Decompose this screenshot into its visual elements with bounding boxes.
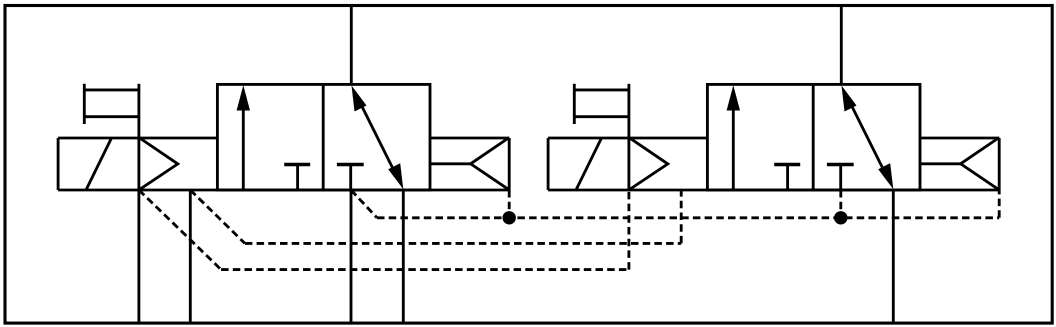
valve V1 body outline xyxy=(217,84,430,190)
valve V2 pilot triangle xyxy=(629,138,668,190)
wire: valve V1 bottom line port 3 xyxy=(402,190,405,323)
valve V2 body outline xyxy=(707,84,920,190)
valve V1 blocked port T (left position) xyxy=(284,163,310,190)
junction dot J1 xyxy=(503,211,516,224)
valve V2 right-position double-headed flow arrow xyxy=(842,86,894,190)
valve V2 air pilot box top edge xyxy=(920,137,999,140)
wire: pilot branch to valve V2 spring-end xyxy=(998,190,1001,218)
junction dot J2 xyxy=(834,211,847,224)
valve V1 blocked port T (right position) xyxy=(337,163,364,190)
wire: pilot line Z1 riser to valve V2 xyxy=(627,190,630,270)
manual override H1 right stem xyxy=(137,84,140,138)
solenoid M2 coil diagonal xyxy=(576,138,602,190)
valve V2 bottom edge line xyxy=(548,189,999,192)
solenoid M1 box outline xyxy=(58,137,217,140)
wire: pilot line Z1 horizontal run xyxy=(221,268,629,271)
manual override H2 lower bar xyxy=(574,115,629,118)
valve V2 left-position flow arrow xyxy=(727,85,740,190)
wire: pilot line Z1 diagonal from valve V1 port 12 xyxy=(139,190,221,270)
manual override H1 left stem xyxy=(83,84,86,124)
valve V1 position divider xyxy=(322,84,325,190)
wire: valve V1 bottom line at x=138.9 xyxy=(137,190,140,323)
wire: pilot supply line Z3 diagonal from valve V1 port 1 xyxy=(351,190,377,218)
valve V1 air pilot triangle xyxy=(471,138,510,190)
wire: pilot supply line Z3 horizontal run xyxy=(377,216,999,219)
wire: pilot branch to valve V1 spring-end xyxy=(508,190,511,218)
solenoid M2 box outline xyxy=(548,137,707,140)
wire: valve V2 bottom line port 3 xyxy=(892,190,895,323)
manual override H1 lower bar xyxy=(84,115,139,118)
manual override H2 right stem xyxy=(627,84,630,138)
valve V1 air pilot box right edge xyxy=(508,138,511,190)
solenoid M2 left edge xyxy=(547,138,550,190)
manual override H2 upper bar xyxy=(574,88,629,91)
wire: valve V1 bottom line port 1 xyxy=(350,190,353,323)
valve V1 right-position double-headed flow arrow xyxy=(352,86,404,190)
valve V1 air pilot mid line xyxy=(430,162,471,165)
manual override H2 left stem xyxy=(573,84,576,124)
valve V1 air pilot box top edge xyxy=(430,137,509,140)
valve V2 position divider xyxy=(812,84,815,190)
solenoid M1 coil diagonal xyxy=(86,138,112,190)
wire: valve V1 bottom line at x=190.3 xyxy=(189,190,192,323)
solenoid M2 divider xyxy=(627,138,630,190)
wire: pilot line Z2 horizontal run xyxy=(245,242,681,245)
wire: pilot branch to valve V2 port xyxy=(839,190,842,218)
wire: valve V2 top port line 2 xyxy=(840,6,843,85)
valve V2 air pilot mid line xyxy=(920,162,961,165)
wire: valve V1 top port line 2 xyxy=(350,6,353,85)
manual override H1 upper bar xyxy=(84,88,139,91)
valve V1 pilot triangle xyxy=(139,138,178,190)
valve V1 left-position flow arrow xyxy=(237,85,250,190)
valve V2 air pilot triangle xyxy=(961,138,1000,190)
wire: pilot line Z2 riser to valve V2 xyxy=(680,190,683,243)
solenoid M1 divider xyxy=(137,138,140,190)
solenoid M1 left edge xyxy=(57,138,60,190)
valve V2 air pilot box right edge xyxy=(998,138,1001,190)
valve V1 bottom edge line xyxy=(58,189,509,192)
valve V2 blocked port T (right position) xyxy=(827,163,854,190)
wire: pilot line Z2 diagonal from valve V1 xyxy=(190,190,245,243)
valve V2 blocked port T (left position) xyxy=(774,163,800,190)
